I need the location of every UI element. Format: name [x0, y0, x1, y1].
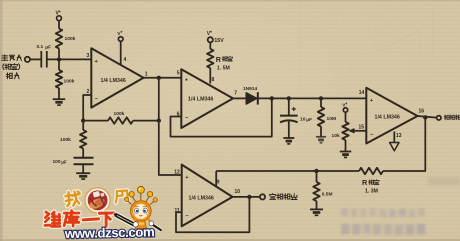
wire pin6 feedback — [171, 101, 272, 137]
watermark gold char pian — [115, 190, 128, 202]
wire V+ to R5 — [209, 42, 211, 49]
node C — [157, 118, 161, 122]
resistor R4 100k — [60, 123, 86, 149]
node E diode cathode — [270, 96, 274, 100]
wire node D to node C — [158, 80, 160, 119]
node D U1 output — [157, 76, 161, 80]
capacitor C1 0.1uF — [37, 44, 52, 67]
capacitor C2 100uF — [53, 149, 94, 166]
wire input to C1 — [30, 58, 41, 60]
node H 0.5M top — [314, 169, 318, 173]
node G 10M top — [319, 96, 323, 100]
resistor R3 100k feedback — [85, 111, 157, 124]
ground G4 — [316, 137, 326, 143]
V+ terminal pin4 — [117, 30, 123, 42]
wire U3 out to terminal — [233, 196, 260, 198]
wire V+ to R1 — [58, 21, 60, 29]
wire R9 to pin9 rail — [216, 170, 359, 172]
wire node I down to R9 — [383, 120, 425, 172]
wire R1 to node A — [58, 49, 60, 58]
wire R2 to ground — [58, 88, 60, 99]
watermark red text weiku-yixia — [45, 211, 114, 227]
wire node A to R2 — [58, 62, 60, 71]
resistor R2 100k — [56, 70, 75, 88]
wire pot to ground — [345, 140, 347, 152]
ground G6 triangle — [390, 143, 399, 151]
ground G3 — [283, 138, 294, 144]
node J U3 output — [247, 195, 251, 199]
wire pin13 to ground — [393, 132, 395, 143]
resistor R1 100k — [56, 29, 76, 49]
control output terminal — [437, 116, 441, 120]
V+ terminal bias — [56, 9, 62, 21]
watermark logo circle — [85, 188, 110, 213]
wire C1 to pin3 — [47, 58, 92, 60]
capacitor C3 10uF — [280, 98, 312, 122]
watermark robot mascot — [124, 186, 161, 230]
node A — [57, 57, 61, 61]
diode D1 1N914 — [243, 86, 258, 104]
watermark pen — [112, 211, 136, 227]
op-amp U4 1/4 LM346 — [358, 88, 424, 144]
faint page bleed-through shapes — [300, 0, 433, 96]
svg-text:www.dzsc.com: www.dzsc.com — [64, 224, 155, 241]
ground G2 — [76, 173, 90, 179]
op-amp U2 1/4 LM346 — [177, 69, 238, 128]
wire node C to pin12 — [159, 123, 182, 175]
op-amp U3 1/4 LM346 — [174, 165, 240, 227]
audio output terminal — [260, 194, 265, 199]
node I U4 output — [423, 115, 427, 119]
faint smudge right edge — [428, 177, 460, 185]
ground G1 — [53, 99, 66, 105]
wire V+ to pin4 — [120, 41, 122, 64]
node F C3 top — [287, 96, 291, 100]
resistor R9 Rset 1.3M — [359, 168, 383, 195]
ground G7 — [310, 209, 323, 215]
V+ terminal pot — [342, 101, 348, 112]
V+ terminal 15V — [207, 30, 224, 45]
op-amp U1 1/4 LM346 — [87, 48, 148, 107]
wire pin9 stem — [215, 171, 217, 186]
wire U1 out to U2 pin5 — [144, 77, 182, 79]
input terminal microphone — [2, 55, 30, 79]
wire U2 out to diode — [233, 97, 246, 99]
ground G5 — [340, 152, 352, 158]
wire V+ to pot — [345, 112, 347, 122]
watermark weiku/dzsc logo group — [45, 186, 162, 241]
resistor R8 0.5M — [313, 173, 332, 201]
resistor R6 10M — [318, 98, 336, 126]
wire U4 out to terminal — [418, 116, 437, 118]
wire diode to pin14 rail — [258, 97, 367, 99]
watermark url www.dzsc.com — [64, 224, 155, 241]
wire pin2 to node B — [83, 95, 91, 119]
resistor R5 Rset 1.5M — [207, 49, 232, 71]
U3 feedback loop — [176, 199, 249, 232]
page bleed-through text rows — [341, 208, 425, 235]
watermark gold char zhao — [65, 191, 80, 206]
pot wiper to pin15 — [349, 129, 366, 133]
node B — [81, 118, 85, 122]
label audio output — [270, 194, 297, 200]
potentiometer R7 10k — [332, 122, 349, 140]
wire C3 to ground — [288, 122, 290, 139]
wire R6 to ground — [320, 127, 322, 137]
wire R8 to ground — [316, 201, 318, 209]
wire R5 to pin8 — [209, 68, 211, 84]
label control output — [444, 115, 460, 120]
wire C2 to ground — [82, 164, 84, 173]
